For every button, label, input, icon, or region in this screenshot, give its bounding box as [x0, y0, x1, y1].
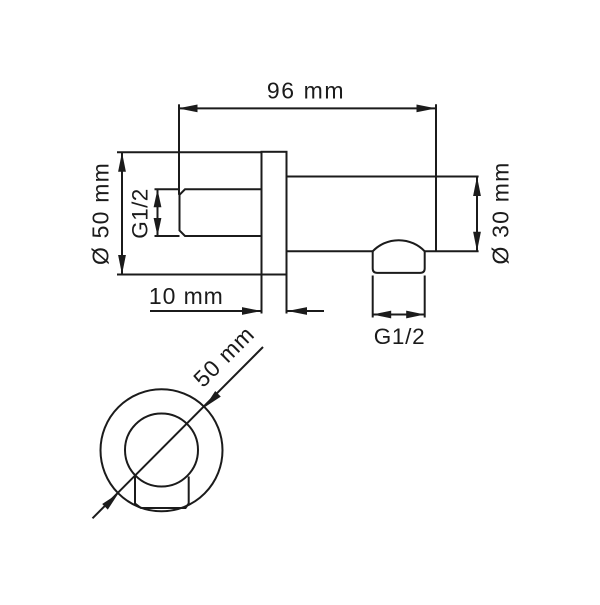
dimension D50 bottom arrow — [118, 255, 126, 275]
dimension 96 mm left arrow — [178, 105, 198, 113]
extension line left for outlet G1/2 — [372, 276, 374, 318]
inlet stub G1/2 — [180, 189, 262, 236]
outlet body — [373, 251, 425, 273]
svg-text:50 mm: 50 mm — [188, 321, 259, 392]
svg-text:Ø 30 mm: Ø 30 mm — [488, 162, 514, 265]
extension line right for outlet G1/2 — [424, 276, 426, 318]
dimension D50 top arrow — [118, 152, 126, 172]
dimension outlet G1/2 left arrow — [373, 311, 392, 319]
dimension 10 mm right tail — [288, 310, 325, 312]
extension line top for D50 — [117, 151, 262, 153]
extension line bottom for D50 — [117, 274, 262, 276]
diagonal dimension 50 mm line — [93, 347, 264, 518]
dimension 10 mm left line — [150, 310, 262, 312]
extension line left for 10 mm — [261, 275, 263, 314]
dimension 10 mm right arrow line — [242, 307, 262, 315]
diagonal dimension upper arrow — [205, 391, 221, 407]
dimension 96 mm right arrow — [417, 105, 437, 113]
front view inner circle — [125, 414, 198, 487]
svg-text:10 mm: 10 mm — [149, 283, 224, 309]
dimension D30 top arrow — [473, 177, 481, 197]
extension line right for 10 mm — [286, 275, 288, 314]
svg-text:G1/2: G1/2 — [374, 324, 426, 349]
wall plate rectangle — [262, 152, 287, 275]
dimension 10 mm left-pointing arrow — [288, 307, 308, 315]
pipe bottom edge left — [287, 250, 373, 252]
dimension 96 mm line — [178, 107, 436, 109]
dimension outlet G1/2 line — [373, 314, 425, 316]
dimension G1/2 stub line — [157, 189, 159, 236]
svg-text:Ø 50 mm: Ø 50 mm — [88, 162, 114, 265]
diagonal dimension lower arrow — [102, 493, 118, 509]
extension line right of 96 mm / pipe right edge — [435, 104, 437, 251]
front view outer circle — [101, 389, 223, 511]
svg-text:96 mm: 96 mm — [267, 78, 345, 104]
dimension G1/2 stub bottom arrow — [154, 218, 162, 236]
extension line left of 96 mm — [178, 104, 180, 195]
dimension outlet G1/2 right arrow — [406, 311, 425, 319]
pipe top edge — [287, 176, 479, 178]
front view nut — [135, 476, 189, 508]
tick bottom for G1/2 stub — [155, 235, 180, 237]
pipe bottom extension right — [425, 250, 479, 252]
dimension D30 line — [476, 177, 478, 252]
outlet dome — [373, 240, 425, 251]
dimension D30 bottom arrow — [473, 232, 481, 252]
dimension G1/2 stub top arrow — [154, 189, 162, 207]
tick top for G1/2 stub — [155, 188, 180, 190]
dimension D50 line — [121, 152, 123, 274]
svg-text:G1/2: G1/2 — [128, 188, 153, 238]
